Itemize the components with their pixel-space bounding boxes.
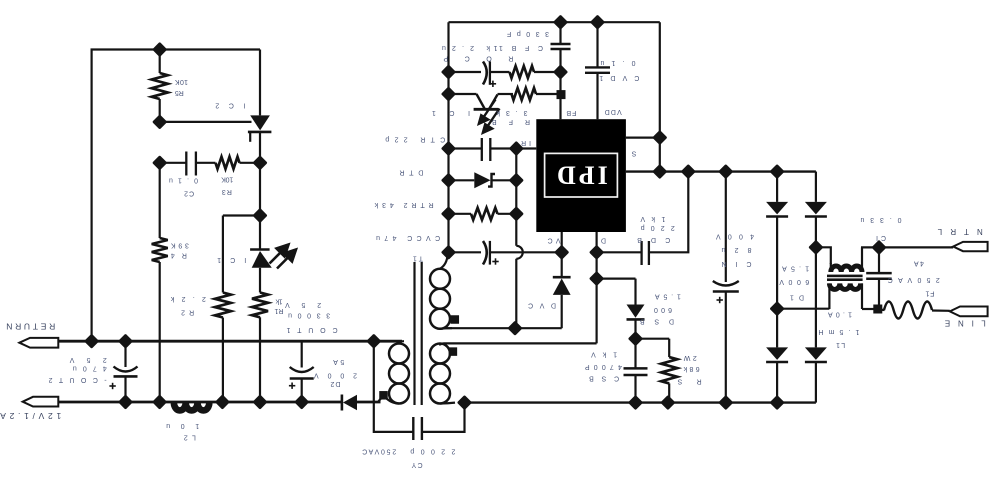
wire VCC row left (449, 251, 482, 253)
label RETURN (6, 321, 55, 331)
label COUT2 name -COUT2 (49, 376, 107, 383)
inductor L1 bottom winding (829, 283, 860, 289)
label CIN voltage 400V (716, 232, 754, 239)
wire IR bus vertical upper (515, 149, 517, 246)
wire bridge left column middle (776, 216, 778, 347)
wire row to R2 (223, 214, 260, 216)
label CI (876, 234, 886, 241)
node junction FB net / CFB row (553, 64, 568, 79)
node junction LINE / CI (873, 305, 882, 314)
wire bridge right column upper (815, 172, 817, 202)
node junction R3 / IC2 anode (252, 155, 267, 170)
wire CVD1 stub upper (596, 22, 598, 67)
wire C2 to R3 (196, 162, 216, 164)
transformer T1 core line left (413, 262, 415, 405)
capacitor C2 0.1u (185, 152, 187, 176)
label pin FB (566, 109, 576, 116)
label R1 (274, 307, 283, 314)
svg-text:4A: 4A (914, 260, 924, 267)
svg-text:CDB: CDB (637, 236, 670, 243)
label RFB value 3.3k (496, 109, 528, 116)
wire RTR2 row left (449, 213, 472, 215)
svg-text:4 0 0 V: 4 0 0 V (716, 232, 754, 239)
wire CDB row left (597, 251, 642, 253)
terminal NTRL (953, 242, 987, 251)
node junction bus / CTR row (441, 141, 456, 156)
svg-text:39K: 39K (171, 242, 189, 249)
svg-text:C2: C2 (184, 189, 194, 196)
wire CIN lower (725, 292, 727, 403)
label L1 (836, 341, 845, 348)
label LINE (945, 319, 986, 328)
capacitor COUT1 polarity + (289, 383, 295, 389)
node junction RETURN / CY (366, 334, 381, 349)
svg-text:F1: F1 (925, 290, 934, 297)
wire top-left rail (91, 48, 261, 50)
inductor L2 (174, 403, 209, 411)
capacitor CVD1 0.1u (585, 66, 610, 68)
label CI value 0.33u (860, 216, 901, 223)
shunt regulator IC2 TL431 (250, 115, 270, 130)
fuse F1 (884, 302, 932, 319)
diode bridge D1c (766, 347, 788, 360)
label L2 (184, 433, 196, 440)
capacitor CFB1 polarity + (490, 81, 496, 87)
wire secondary bottom join (378, 395, 384, 402)
node junction +12V / R4 line (152, 394, 167, 409)
wire CTR row right (490, 147, 516, 149)
wire R2 lower to +12V bus (222, 318, 224, 403)
capacitor COUT1 3300u 25V (290, 367, 314, 372)
label T1 (413, 255, 423, 262)
capacitor C330pF on FB (551, 43, 571, 45)
wire opto row right (498, 93, 514, 95)
transformer T1 core line right (421, 262, 423, 405)
svg-text:S: S (631, 150, 636, 157)
label L1 value 1.5mH (818, 328, 859, 335)
diode DSB (627, 305, 645, 318)
node junction bridge right AC node (808, 240, 823, 255)
node junction bottom bus / RS (660, 395, 675, 410)
svg-text:IR: IR (521, 139, 531, 146)
capacitor COUT2 470u 25V (114, 367, 138, 372)
svg-text:VDD: VDD (605, 108, 622, 115)
node junction R5 / feedback row (152, 114, 167, 129)
diode bridge D1d (805, 347, 827, 360)
label CY value 2200p (410, 447, 455, 454)
label CIN value 8.2u (721, 246, 751, 253)
wire primary bottom bus (465, 401, 816, 403)
wire S pin lower / primary ground rail (626, 170, 816, 172)
wire CFB row left (449, 71, 482, 73)
svg-text:5A: 5A (333, 358, 344, 365)
op-amp U1 IPD controller body (536, 119, 626, 232)
label CY (411, 461, 422, 468)
wire +12V bus left of D2 (58, 401, 342, 404)
wire RTR2 row right (498, 213, 517, 215)
label CTR 22p (385, 135, 445, 142)
wire R2 upper (222, 216, 224, 293)
wire CFB1 to ROCP (490, 71, 510, 73)
svg-text:1k: 1k (275, 297, 283, 304)
label CSB value 4700P (585, 363, 622, 370)
label R4 (171, 252, 187, 259)
node junction drain / DSB row (589, 271, 604, 286)
capacitor CFB1 2.2u (483, 62, 487, 85)
svg-text:CSB: CSB (589, 374, 619, 381)
node junction gnd rail / CDB (681, 164, 696, 179)
wire left vert between rows (159, 163, 161, 238)
node junction bottom bus / CIN (718, 395, 733, 410)
wire D pin below chip (595, 232, 597, 252)
label CDB rating 1kV (640, 215, 665, 222)
label pin VDD (605, 108, 622, 115)
svg-text:R3: R3 (222, 188, 232, 195)
node junction top rail / R5 (152, 42, 167, 57)
node junction IR net / RTR2 (509, 206, 524, 221)
node junction +12V / R2 line (215, 394, 230, 409)
svg-text:C I N: C I N (722, 260, 752, 267)
label D1 current 1.5A (782, 265, 809, 272)
resistor RTR2 (471, 208, 498, 220)
wire controller left bus (447, 22, 449, 252)
label CFB1 (499, 44, 543, 51)
label R3 value 10K (221, 176, 233, 183)
svg-text:C O U T 1: C O U T 1 (287, 326, 338, 333)
wire bridge left column upper (776, 172, 778, 202)
node junction bus / opto row (441, 86, 456, 101)
node junction RETURN / far-left vertical (84, 334, 99, 349)
resistor R5 (152, 73, 168, 99)
capacitor CIN electrolytic (713, 281, 739, 286)
capacitor CTR 22p (481, 138, 483, 161)
capacitor CI 0.33u (866, 272, 892, 275)
diode DVC (553, 276, 571, 279)
svg-text:2W: 2W (683, 354, 696, 361)
label CFB1 value 2.2u (442, 44, 474, 51)
wire CI upper (878, 247, 880, 273)
node junction anode line / R2 row (252, 208, 267, 223)
wire DVC anode down (561, 295, 563, 328)
node junction RETURN / COUT2 (118, 334, 133, 349)
optocoupler IC1 light arrow into transistor 1 (479, 100, 496, 124)
wire R1 lower to +12V bus (259, 317, 261, 402)
label pin S (631, 150, 636, 157)
capacitor COUT2 polarity + (109, 383, 115, 389)
diode DTR (474, 172, 490, 188)
wire D2 to transformer secondary (357, 401, 381, 404)
node junction bus / aux winding top (441, 245, 456, 260)
svg-text:2 5 0 V A C: 2 5 0 V A C (362, 447, 396, 454)
label D1 (790, 293, 804, 300)
svg-text:1.0A: 1.0A (828, 311, 852, 318)
label R3 (222, 188, 232, 195)
svg-text:L1: L1 (836, 341, 845, 348)
node junction gnd rail / CIN (718, 164, 733, 179)
wire IC2 cathode from rail (259, 50, 261, 116)
capacitor CY 2200p 250VAC (412, 417, 414, 440)
wire primary ground top rail (449, 21, 660, 23)
op-amp U1 IPD label (554, 161, 608, 190)
label F1 current 4A (914, 260, 924, 267)
wire VDD stub to chip (596, 73, 598, 119)
node junction top rail / CVD1 (590, 15, 605, 30)
node junction +12V / R1 line (252, 394, 267, 409)
resistor R3 (216, 157, 240, 169)
wire CDB to S rail (649, 172, 688, 253)
node junction bottom bus / CSB (628, 395, 643, 410)
svg-text:DTR: DTR (399, 168, 423, 175)
wire bridge left column lower (776, 362, 778, 403)
svg-text:RTR2 43k: RTR2 43k (374, 201, 434, 208)
wire R3 to IC2 anode line (240, 162, 261, 164)
label CY rating 250VAC (362, 447, 396, 454)
label ROCP value 1k (486, 44, 498, 51)
node junction bottom bus / CY + primary winding (457, 395, 472, 410)
label COUT1 voltage 25V (285, 301, 321, 308)
wire ground rail right vertical (659, 22, 661, 171)
label RFB (492, 118, 530, 125)
label R5 value 10K (175, 78, 188, 85)
diode bridge D1a (766, 202, 788, 215)
wire RS row (636, 338, 670, 340)
capacitor COUT1 wire lower (301, 379, 303, 403)
svg-text:1kV: 1kV (640, 215, 665, 222)
wire ROCP to FB node (534, 71, 561, 73)
wire LED to R1 (259, 268, 261, 293)
capacitor CDB 220p 1kV (640, 241, 642, 265)
label COUT2 voltage 25V (69, 356, 106, 363)
label F1 (925, 290, 934, 297)
wire IR bus vertical lower (515, 259, 517, 328)
wire bridge right column middle (815, 216, 817, 347)
svg-text:FB: FB (566, 109, 576, 116)
label DSB current 1.5A (655, 293, 681, 300)
label RS (677, 378, 701, 385)
wire DSB lower (634, 319, 636, 338)
label pin VC (548, 236, 561, 243)
label D2 (330, 380, 340, 387)
label IC1 (transistor side) (432, 109, 470, 116)
label CVCC 47u (376, 234, 440, 241)
node junction gnd rail / S vertical (652, 164, 667, 179)
capacitor COUT2 wire lower (124, 376, 126, 402)
node T1 aux phase dot (451, 315, 460, 324)
node junction bus / DTR row (441, 173, 456, 188)
wire R5 branch upper (159, 50, 161, 74)
label DSB voltage 600 (654, 306, 672, 313)
terminal RETURN (19, 338, 58, 348)
node junction VCC / VC pin (554, 245, 569, 260)
wire IR pin (516, 147, 536, 149)
wire feedback row to IC2 (160, 121, 252, 123)
wire CIN upper (725, 172, 727, 282)
label R2 (181, 309, 194, 316)
label CIN (722, 260, 752, 267)
resistor RS (661, 357, 677, 383)
svg-text:D2: D2 (330, 380, 340, 387)
wire CSB lower (634, 375, 636, 403)
transformer T1 secondary winding (399, 341, 404, 343)
node junction bottom bus / bridge left (769, 395, 784, 410)
capacitor CVCC polarity + (492, 258, 498, 264)
label F1 rating 250VAC (888, 276, 940, 283)
transformer T1 aux winding (440, 252, 448, 268)
transformer T1 primary winding (440, 343, 444, 345)
wire RFB to FB node (536, 93, 561, 95)
wire bridge right column lower (815, 362, 817, 403)
wire VC to DVC (561, 252, 563, 277)
wire RS lower (668, 383, 670, 402)
svg-text:3 3 0 0 u: 3 3 0 0 u (288, 311, 330, 318)
svg-text:CI: CI (876, 234, 886, 241)
diode D2 (341, 395, 344, 411)
wire CI lower (878, 279, 880, 309)
label 12V/1.2A (0, 411, 61, 421)
wire bridge left AC to choke bottom (777, 308, 829, 310)
capacitor CY left wire (374, 341, 414, 432)
diode bridge D1b (805, 202, 827, 215)
wire opto row left (449, 93, 477, 95)
label D1 voltage 600V (779, 278, 809, 285)
label NTRL (937, 227, 983, 236)
node junction S upper (652, 130, 667, 145)
optocoupler LED IC1 (250, 248, 270, 251)
node T1 secondary phase dot (379, 391, 388, 400)
label CDB value 220p (641, 224, 675, 231)
inductor L1 top winding (831, 266, 862, 272)
label RS value 68k (683, 365, 700, 372)
node T1 primary phase dot (449, 347, 458, 356)
label DVC (528, 302, 556, 309)
node junction bridge left AC node (769, 301, 784, 316)
optocoupler IC1 light arrow 2 (277, 250, 296, 269)
node junction +12V / COUT1 (294, 394, 309, 409)
wire aux bottom row (443, 327, 562, 329)
capacitor CSB 4700P 1kV (624, 367, 648, 370)
node junction FB net / opto row (557, 90, 566, 99)
label CSB rating 1kV (591, 351, 617, 358)
wire DTR row left (449, 179, 475, 181)
label R2 value 2.2k (170, 295, 206, 302)
label D2 voltage 200V (314, 371, 357, 378)
svg-text:IPD: IPD (554, 161, 608, 190)
wire RETURN bus (58, 340, 402, 343)
wire S pin upper (626, 137, 660, 139)
capacitor COUT2 wire upper (124, 341, 126, 367)
label ROCP (443, 54, 513, 61)
label CDB (637, 236, 670, 243)
optocoupler IC1 phototransistor (474, 94, 499, 110)
terminal 12V output (23, 397, 59, 407)
svg-text:R1: R1 (274, 307, 283, 314)
terminal LINE (950, 307, 988, 317)
resistor R1 (252, 293, 268, 318)
wire FB stub upper (559, 22, 561, 44)
label pin IR (521, 139, 531, 146)
capacitor CIN polarity + (717, 297, 723, 303)
label 330pF (507, 30, 549, 37)
label R1 value 1k (275, 297, 283, 304)
node junction DSB / RS / CSB (628, 331, 643, 346)
svg-text:DVC: DVC (528, 302, 556, 309)
label L2 value 10u (166, 422, 199, 429)
label CVD1 (599, 74, 639, 81)
wire NTRL (861, 246, 953, 248)
wire C2 row left (160, 162, 187, 164)
node junction NTRL / CI (871, 240, 886, 255)
wire DSB row (597, 278, 636, 280)
wire R5 to node (159, 99, 161, 122)
wire VCC row right (490, 251, 562, 253)
label RS rating 2W (683, 354, 696, 361)
svg-text:600: 600 (654, 306, 672, 313)
node junction IR net / DTR (509, 173, 524, 188)
capacitor COUT1 wire upper (301, 341, 303, 367)
label IC1 (LED side) (217, 256, 246, 263)
optocoupler IC1 light arrow into transistor 2 (483, 109, 500, 133)
node junction left vert / C2 row (152, 155, 167, 170)
label RTR2 43k (374, 201, 434, 208)
svg-text:D: D (601, 236, 606, 243)
optocoupler IC1 light arrow 1 (270, 245, 289, 264)
label DSB (640, 318, 674, 325)
wire DSB upper (634, 279, 636, 305)
svg-text:68k: 68k (683, 365, 700, 372)
resistor ROCP (510, 66, 535, 78)
wire IC2 anode down (259, 132, 261, 249)
wire RS upper (668, 339, 670, 357)
wire DTR row right (492, 179, 517, 181)
label pin D (601, 236, 606, 243)
inductor L1 core (827, 275, 863, 278)
wire FB stub to chip (559, 49, 561, 119)
wire CTR row left (449, 147, 482, 149)
node junction bus / RTR2 row (441, 206, 456, 221)
svg-text:R5: R5 (175, 89, 184, 96)
wire IR bus crossover hop (516, 246, 522, 259)
svg-text:2 2 0 0 p: 2 2 0 0 p (410, 447, 455, 454)
svg-text:10K: 10K (175, 78, 188, 85)
label COUT1 value 3300u (288, 311, 330, 318)
label D2 current 5A (333, 358, 344, 365)
node junction IR net / CTR (509, 141, 524, 156)
node junction top rail / 330pF (553, 15, 568, 30)
resistor R4 (152, 238, 168, 262)
resistor RFB (512, 88, 537, 100)
label CVD1 value 0.1u (600, 59, 635, 66)
node junction gnd rail / bridge left (769, 164, 784, 179)
label COUT1 (287, 326, 338, 333)
node junction bus / CFB row (441, 64, 456, 79)
label DTR (399, 168, 423, 175)
node junction D pin / CDB row (589, 245, 604, 260)
svg-text:- C O U T 2: - C O U T 2 (49, 376, 107, 383)
wire VC pin below chip (561, 232, 563, 252)
label CSB (589, 374, 619, 381)
resistor R2 (215, 293, 231, 318)
capacitor CY right wire (422, 403, 465, 432)
svg-text:CY: CY (411, 461, 422, 468)
label IC2 (215, 102, 245, 109)
label COUT2 value 470u (73, 365, 107, 372)
node junction IR bus / aux bottom (507, 321, 522, 336)
wire drain down (595, 252, 597, 343)
wire LINE left segment (862, 308, 878, 310)
label C2 (184, 189, 194, 196)
label C2 value 0.1u (169, 177, 198, 184)
wire far-left vertical from top rail to RETURN bus (90, 50, 92, 342)
